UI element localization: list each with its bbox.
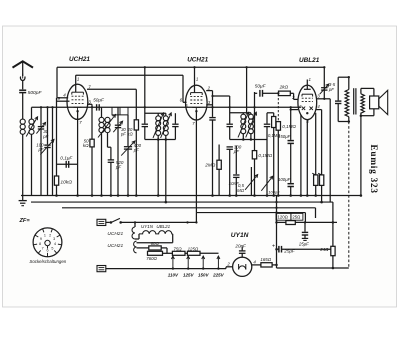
svg-text:9: 9 bbox=[40, 237, 42, 241]
svg-text:UCH21: UCH21 bbox=[69, 56, 90, 63]
resistor 60Ohm bbox=[137, 247, 149, 249]
IF2 secondary coil bbox=[248, 114, 253, 119]
capacitor 10nF bbox=[235, 146, 237, 175]
mains plug bottom bbox=[97, 266, 106, 272]
capacitor 300pF bbox=[227, 146, 233, 148]
speaker return bbox=[373, 109, 375, 116]
op... pentode section U1 envelope bbox=[67, 84, 88, 119]
tube U2 pin3 wire bbox=[206, 104, 212, 106]
voltage tap 150V bbox=[202, 256, 204, 269]
voltage tap 225V bbox=[217, 256, 219, 269]
mains plug top bbox=[97, 219, 106, 225]
trimmer capacitor 30pF bbox=[38, 126, 44, 128]
svg-text:UCH21: UCH21 bbox=[187, 56, 208, 63]
resistor 75Ohm bbox=[167, 252, 172, 254]
svg-text:110V: 110V bbox=[168, 273, 179, 278]
svg-text:500pF: 500pF bbox=[28, 90, 43, 96]
rectifier U4 UY1N bbox=[233, 257, 252, 276]
tube U3 wire pin8 down bbox=[306, 120, 308, 196]
voltage tap 125V bbox=[187, 256, 189, 269]
speaker feed top bbox=[360, 88, 362, 93]
IF1 left capacitor bbox=[142, 123, 148, 125]
IF2 right capacitor bbox=[264, 123, 270, 125]
osc coil arrow bbox=[98, 115, 116, 138]
capacitor 25uF b bbox=[304, 222, 306, 231]
svg-text:UCH21: UCH21 bbox=[107, 231, 123, 237]
tube U1 internal electrodes bbox=[72, 91, 84, 93]
trimmer 3-5pF bbox=[321, 87, 327, 89]
heater drop bbox=[134, 222, 136, 227]
capacitor 520pF bbox=[108, 159, 114, 161]
tone line 100pF bbox=[266, 140, 268, 196]
svg-text:150V: 150V bbox=[198, 273, 210, 278]
AVC line corner bbox=[56, 67, 58, 98]
resistor 24Ohm bbox=[332, 202, 334, 246]
heater return bbox=[172, 234, 174, 243]
capacitor 0,1uF bbox=[65, 161, 67, 168]
wire secondary bottom bbox=[31, 134, 33, 195]
rectifier pin4 wire bbox=[252, 264, 261, 266]
resistor 20kOhm osc bbox=[135, 89, 137, 120]
coupling capacitor 50uF bbox=[255, 92, 258, 94]
heater UCH21 a bbox=[132, 227, 135, 239]
mains switch bbox=[110, 221, 113, 224]
B+ return dashed bbox=[348, 122, 350, 269]
heater link a bbox=[135, 238, 139, 240]
heater link tube2 bbox=[195, 213, 197, 223]
bus crossing dots bbox=[40, 106, 42, 108]
svg-text:0,1μF: 0,1μF bbox=[60, 155, 73, 160]
antenna coil primary L1 bbox=[20, 119, 25, 124]
chassis bus 3 bbox=[62, 207, 316, 209]
wire cathode link bbox=[57, 163, 78, 165]
tube U1 pin7 wire bbox=[87, 88, 136, 90]
svg-text:25Ω: 25Ω bbox=[292, 215, 301, 220]
svg-text:MΩ: MΩ bbox=[237, 188, 245, 193]
svg-text:pF: pF bbox=[133, 148, 139, 153]
osc coil L4 bbox=[105, 117, 110, 122]
core adjust arrow L2 bbox=[26, 117, 37, 137]
transformer top link bbox=[338, 76, 349, 78]
IF1 drop b bbox=[165, 140, 167, 203]
IF1 right capacitor bbox=[172, 123, 178, 125]
transformer T1 primary bbox=[345, 90, 349, 117]
tube U1 pin3 wire bbox=[87, 103, 92, 105]
svg-text:pF: pF bbox=[328, 87, 334, 92]
chassis bus 2 bbox=[31, 201, 333, 203]
chassis bus 4 cathode line bbox=[196, 212, 305, 214]
wire L4 link bbox=[107, 133, 109, 148]
svg-text:225V: 225V bbox=[212, 273, 225, 278]
bus1 junctions bbox=[55, 194, 58, 197]
svg-text:24Ω: 24Ω bbox=[319, 247, 329, 252]
svg-text:4: 4 bbox=[54, 242, 56, 246]
wire antenna to C 500pF bbox=[22, 81, 24, 90]
wire 10k to bus bbox=[56, 185, 58, 195]
svg-text:Sockelschaltungen: Sockelschaltungen bbox=[29, 259, 66, 264]
variable capacitor 400pF bbox=[127, 115, 129, 146]
svg-text:20nF: 20nF bbox=[234, 244, 247, 249]
tube U2 pin2 wire bbox=[206, 90, 212, 92]
svg-text:25μF: 25μF bbox=[283, 249, 296, 254]
B+ riser bbox=[276, 196, 278, 269]
svg-text:60Ω: 60Ω bbox=[151, 241, 160, 246]
svg-text:3: 3 bbox=[53, 237, 55, 241]
resistor grid leak bbox=[273, 113, 275, 117]
transformer T1 secondary bbox=[361, 94, 365, 113]
resistor 165Ohm bbox=[261, 263, 272, 267]
rectifier pin2 wire bbox=[226, 266, 233, 268]
IF1 top link bbox=[145, 112, 166, 114]
wire tuning cap bottom bbox=[47, 148, 49, 196]
IF1 core arrow b bbox=[161, 113, 172, 138]
padding box bbox=[112, 107, 128, 115]
tube U1 cathode wire down bbox=[77, 111, 79, 195]
svg-text:0,1MΩ: 0,1MΩ bbox=[258, 153, 272, 158]
svg-text:2: 2 bbox=[49, 234, 51, 238]
IF2 feed bbox=[213, 95, 230, 97]
antenna bbox=[13, 61, 34, 67]
tube socket pinout diagram bbox=[33, 228, 62, 257]
IF1 left rail bbox=[144, 67, 146, 123]
svg-text:10kΩ: 10kΩ bbox=[60, 179, 72, 185]
svg-text:75Ω: 75Ω bbox=[173, 246, 182, 251]
wire node left bbox=[52, 107, 54, 195]
tube U2 pin1 wire bbox=[194, 67, 196, 92]
IF1 secondary coil bbox=[163, 116, 168, 121]
svg-text:6: 6 bbox=[46, 248, 48, 252]
wire grid return bbox=[56, 98, 58, 176]
svg-text:pF: pF bbox=[120, 132, 126, 137]
tube U2 pin6 wire bbox=[183, 101, 187, 103]
IF1 right rail bbox=[174, 113, 176, 123]
svg-text:UCH21: UCH21 bbox=[107, 243, 123, 249]
osc trimmer 30pF bbox=[117, 107, 119, 124]
voltage tap 110V bbox=[172, 256, 174, 269]
B- return line bbox=[277, 267, 349, 269]
heater UCH21 b bbox=[134, 241, 137, 253]
tone capacitor bbox=[337, 77, 339, 100]
svg-text:5: 5 bbox=[51, 247, 53, 251]
loudspeaker LS1 bbox=[370, 96, 379, 109]
IF2 B+ drop bbox=[246, 67, 248, 113]
svg-text:50μF: 50μF bbox=[93, 98, 105, 103]
IF1 core arrow a bbox=[153, 113, 164, 138]
tube U3 wire pin4 down bbox=[315, 113, 317, 175]
wire 50k to bus bbox=[91, 147, 93, 196]
svg-text:120Ω: 120Ω bbox=[278, 215, 289, 220]
svg-text:0,1MΩ: 0,1MΩ bbox=[282, 124, 296, 129]
wire tuning cap C3 bbox=[47, 107, 49, 144]
svg-text:760Ω: 760Ω bbox=[146, 256, 157, 261]
mains bus lower bbox=[106, 268, 226, 270]
IF1 primary coil bbox=[156, 116, 161, 121]
svg-text:8: 8 bbox=[39, 242, 41, 246]
bus2 junctions bbox=[165, 201, 168, 204]
wire trimmer bottom bbox=[40, 129, 42, 196]
wire coil to chassis bus bbox=[22, 134, 24, 195]
svg-text:UBL21: UBL21 bbox=[156, 224, 170, 229]
tube U3 wire pin6 down bbox=[300, 115, 302, 196]
ground symbol bbox=[22, 196, 24, 201]
bias resistor Ra bbox=[314, 175, 318, 186]
svg-text:2: 2 bbox=[207, 86, 211, 91]
resistor 760Ohm bbox=[148, 251, 163, 255]
heater feed wire bbox=[121, 221, 196, 223]
tube U2 cathode down bbox=[195, 111, 197, 212]
IF2 bottom link bbox=[230, 139, 267, 141]
capacitor 150uF bbox=[290, 107, 292, 140]
resistor 0,1MOhm grid bbox=[252, 151, 256, 159]
bias resistor Rb bbox=[321, 110, 323, 175]
tube U3 envelope bbox=[298, 85, 317, 119]
svg-text:2: 2 bbox=[226, 262, 230, 267]
svg-text:165Ω: 165Ω bbox=[260, 257, 271, 262]
svg-text:2: 2 bbox=[291, 95, 295, 100]
IF2 core arrow b bbox=[246, 112, 257, 137]
svg-text:+: + bbox=[272, 244, 275, 250]
tube U2 internal electrodes bbox=[191, 92, 203, 94]
capacitor 50uF electrolytic bbox=[96, 104, 98, 110]
IF2 core arrow a bbox=[238, 112, 249, 137]
svg-text:UY1N: UY1N bbox=[141, 224, 154, 229]
variable capacitor 100pF bbox=[44, 144, 50, 146]
capacitor 100uF bbox=[290, 143, 292, 183]
tube U3 pin3 wire bbox=[316, 98, 330, 100]
resistor 10kOhm bbox=[54, 176, 58, 185]
wire 520pF bottom bbox=[110, 162, 112, 195]
wire C to antenna coil bbox=[22, 93, 24, 120]
resistor 125Ohm bbox=[185, 252, 187, 254]
AVC dashed line bbox=[277, 94, 279, 122]
svg-text:125V: 125V bbox=[183, 273, 195, 278]
transformer bottom link bbox=[348, 117, 350, 122]
heater UY1N UBL21 bumps bbox=[139, 231, 173, 234]
svg-text:1: 1 bbox=[44, 234, 46, 238]
antenna coil secondary L2 bbox=[29, 119, 34, 124]
svg-text:2MΩ: 2MΩ bbox=[204, 162, 216, 167]
tube U3 internal electrodes bbox=[302, 93, 313, 95]
svg-text:kΩ: kΩ bbox=[83, 143, 89, 148]
IF2 right rail bbox=[266, 113, 268, 124]
IF2 primary coil bbox=[241, 114, 246, 119]
svg-text:50μF: 50μF bbox=[255, 84, 267, 89]
IF1 drop a bbox=[157, 140, 159, 196]
antenna connector bbox=[20, 77, 25, 81]
svg-text:150μF: 150μF bbox=[278, 134, 291, 139]
resistor 50kOhm bbox=[90, 139, 94, 147]
resistor 2MOhm bbox=[218, 145, 220, 161]
wire osc trimmer bottom bbox=[117, 128, 119, 196]
svg-text:UBL21: UBL21 bbox=[299, 57, 320, 64]
svg-text:25μF: 25μF bbox=[298, 241, 309, 246]
tube1 pin1 wire bbox=[75, 75, 77, 92]
wire secondary top bbox=[31, 107, 33, 119]
wire 400pF bottom bbox=[127, 149, 129, 195]
resistor 0,1MOhm AVC bbox=[276, 122, 280, 131]
svg-text:Eumig 323: Eumig 323 bbox=[369, 145, 379, 194]
svg-text:2kΩ: 2kΩ bbox=[279, 85, 289, 90]
wire L3 top bbox=[101, 107, 103, 117]
osc coil L3 bbox=[99, 117, 104, 122]
top supply bus bbox=[57, 66, 324, 68]
IF2 top ext bbox=[267, 112, 274, 114]
anode decoupling cap bbox=[212, 91, 214, 117]
svg-text:ZF=: ZF= bbox=[19, 218, 31, 224]
volume potentiometer 0,5MOhm bbox=[254, 92, 256, 151]
svg-text:7: 7 bbox=[42, 247, 44, 251]
IF2 top link bbox=[230, 112, 251, 114]
svg-text:125Ω: 125Ω bbox=[188, 246, 199, 251]
transformer core bbox=[353, 88, 355, 114]
dial lamp labels 120/25 bbox=[276, 213, 291, 220]
capacitor 500pF bbox=[19, 89, 26, 91]
capacitor 25uF a bbox=[278, 246, 280, 253]
svg-text:UY1N: UY1N bbox=[231, 232, 249, 239]
tube U2 envelope bbox=[186, 85, 208, 120]
svg-text:100μF: 100μF bbox=[278, 177, 291, 182]
screen bus bbox=[32, 106, 301, 108]
wire trimmer C2 bbox=[40, 107, 42, 126]
wire L3 bottom bbox=[101, 133, 103, 196]
IF1 bottom link bbox=[145, 139, 176, 141]
tube U3 pin1 bbox=[306, 80, 308, 86]
dial resistor bbox=[286, 221, 295, 225]
screen feed drop bbox=[329, 99, 331, 202]
resistor 2kOhm bbox=[279, 91, 291, 96]
chassis bus 1 bbox=[21, 195, 361, 197]
svg-text:pF: pF bbox=[37, 147, 43, 152]
IF2 left capacitor bbox=[227, 123, 233, 125]
